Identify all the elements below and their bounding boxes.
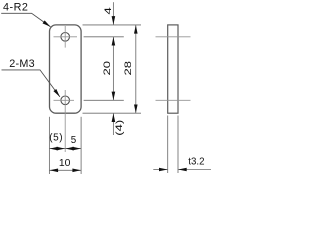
svg-text:28: 28 (124, 61, 134, 75)
svg-text:t3.2: t3.2 (188, 157, 204, 168)
svg-text:(4): (4) (115, 119, 125, 135)
dim 4 line (112, 2, 114, 24)
t3.2 extension left (167, 116, 169, 174)
svg-text:20: 20 (103, 61, 113, 75)
leader 2-M3 (2, 70, 60, 97)
svg-text:2-M3: 2-M3 (9, 58, 35, 70)
dim 28 line (135, 25, 137, 113)
hole top (M3) (61, 33, 70, 42)
dim (4) line (112, 114, 114, 136)
hole bottom (M3) (61, 96, 70, 105)
dim (5)/5 line (49, 148, 81, 150)
plate front view outline (50, 25, 82, 113)
hole top center lines (54, 36, 78, 38)
side view center line bottom (156, 99, 191, 101)
svg-text:4-R2: 4-R2 (3, 1, 28, 13)
side view center line top (156, 36, 191, 38)
hole bottom center lines (54, 99, 75, 101)
leader 4-R2 (1, 13, 50, 26)
side view outline (168, 25, 178, 113)
extension bottom edge (83, 112, 142, 114)
extension bottom left (48, 117, 50, 174)
dim 10 line (49, 169, 81, 171)
dim t3.2 line right (178, 169, 211, 171)
extension hole-bottom center (84, 99, 124, 101)
svg-text:5: 5 (71, 135, 77, 146)
dim 20 line (112, 37, 114, 100)
t3.2 extension right (177, 116, 179, 174)
svg-text:4: 4 (104, 7, 114, 14)
extension top edge (83, 24, 142, 26)
extension bottom right (80, 117, 82, 174)
extension hole-top center (84, 36, 124, 38)
dim t3.2 line left (153, 169, 167, 171)
svg-text:(5): (5) (49, 132, 63, 143)
svg-text:10: 10 (59, 158, 71, 169)
